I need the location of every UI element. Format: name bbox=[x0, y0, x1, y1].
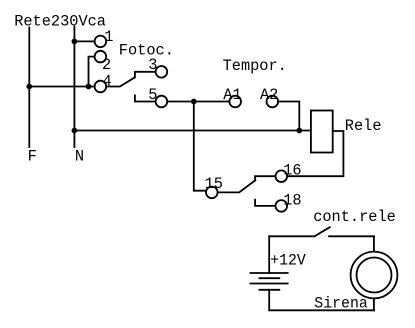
svg-text:Rele: Rele bbox=[345, 117, 382, 135]
svg-text:4: 4 bbox=[103, 73, 112, 91]
svg-text:cont.rele: cont.rele bbox=[313, 208, 396, 226]
svg-text:15: 15 bbox=[205, 175, 223, 193]
svg-text:N: N bbox=[75, 147, 84, 165]
svg-text:+12V: +12V bbox=[270, 252, 306, 270]
svg-text:18: 18 bbox=[283, 192, 301, 210]
svg-text:1: 1 bbox=[104, 28, 113, 46]
svg-text:2: 2 bbox=[102, 56, 111, 74]
svg-text:16: 16 bbox=[283, 162, 301, 180]
svg-text:3: 3 bbox=[148, 56, 157, 74]
svg-text:A2: A2 bbox=[260, 86, 278, 104]
svg-text:Sirena: Sirena bbox=[314, 295, 368, 313]
svg-text:Rete230Vca: Rete230Vca bbox=[14, 12, 106, 30]
svg-text:A1: A1 bbox=[223, 86, 241, 104]
svg-text:Tempor.: Tempor. bbox=[223, 57, 287, 75]
svg-text:F: F bbox=[28, 147, 37, 165]
svg-text:5: 5 bbox=[148, 86, 157, 104]
svg-text:Fotoc.: Fotoc. bbox=[119, 42, 174, 60]
